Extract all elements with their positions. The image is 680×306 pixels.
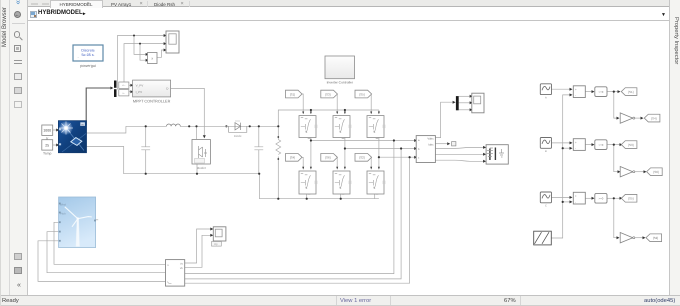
svg-text:Pitch: Pitch xyxy=(60,213,66,216)
svg-text:Mosfet: Mosfet xyxy=(197,166,206,170)
svg-text:+: + xyxy=(575,194,577,198)
svg-text:Temp: Temp xyxy=(43,152,51,156)
svg-text:>=0: >=0 xyxy=(598,90,603,94)
svg-text:[S1]: [S1] xyxy=(628,90,634,94)
svg-text:V_PV: V_PV xyxy=(136,83,144,87)
svg-text:Kp: Kp xyxy=(214,243,218,246)
svg-text:5e-05 s.: 5e-05 s. xyxy=(82,53,95,57)
svg-text:Discrete: Discrete xyxy=(81,49,94,53)
svg-text:[S5]: [S5] xyxy=(359,92,365,96)
svg-text:+: + xyxy=(575,87,577,91)
svg-text:C: C xyxy=(545,205,547,208)
svg-text:[S2]: [S2] xyxy=(359,156,365,160)
svg-text:v+-: v+- xyxy=(122,84,125,87)
svg-text:Wind: Wind xyxy=(60,204,66,207)
svg-text:[S2]: [S2] xyxy=(653,236,659,240)
svg-text:Diode: Diode xyxy=(234,134,242,138)
svg-text:B: B xyxy=(545,150,547,153)
svg-text:Iabc: Iabc xyxy=(428,142,434,146)
svg-text:[S4]: [S4] xyxy=(290,156,296,160)
svg-text:i+-: i+- xyxy=(122,92,125,95)
svg-text:x: x xyxy=(151,57,153,61)
svg-text:Vabc: Vabc xyxy=(427,137,434,141)
svg-text:◦: ◦ xyxy=(78,55,79,59)
svg-text:[S1]: [S1] xyxy=(290,92,296,96)
svg-text:powergui: powergui xyxy=(80,63,96,68)
svg-text:>=0: >=0 xyxy=(598,143,603,147)
svg-text:-: - xyxy=(575,200,576,204)
svg-text:>=0: >=0 xyxy=(598,196,603,200)
svg-text:[S6]: [S6] xyxy=(325,156,331,160)
svg-text:[S6]: [S6] xyxy=(653,170,659,174)
svg-text:MPPT CONTROLLER: MPPT CONTROLLER xyxy=(133,99,171,103)
svg-text:m: m xyxy=(82,123,84,126)
svg-text:Inverter Controller: Inverter Controller xyxy=(327,81,354,85)
svg-text:25: 25 xyxy=(45,143,49,147)
svg-text:[S3]: [S3] xyxy=(325,92,331,96)
svg-text:-: - xyxy=(575,146,576,150)
svg-text:[S3]: [S3] xyxy=(628,143,634,147)
svg-text:I_PV: I_PV xyxy=(135,90,142,94)
svg-text:A: A xyxy=(545,96,547,99)
svg-text:-: - xyxy=(575,93,576,97)
svg-text:+: + xyxy=(575,140,577,144)
svg-text:1000: 1000 xyxy=(43,129,51,133)
svg-text:[S5]: [S5] xyxy=(628,197,634,201)
svg-text:[S4]: [S4] xyxy=(651,116,657,120)
